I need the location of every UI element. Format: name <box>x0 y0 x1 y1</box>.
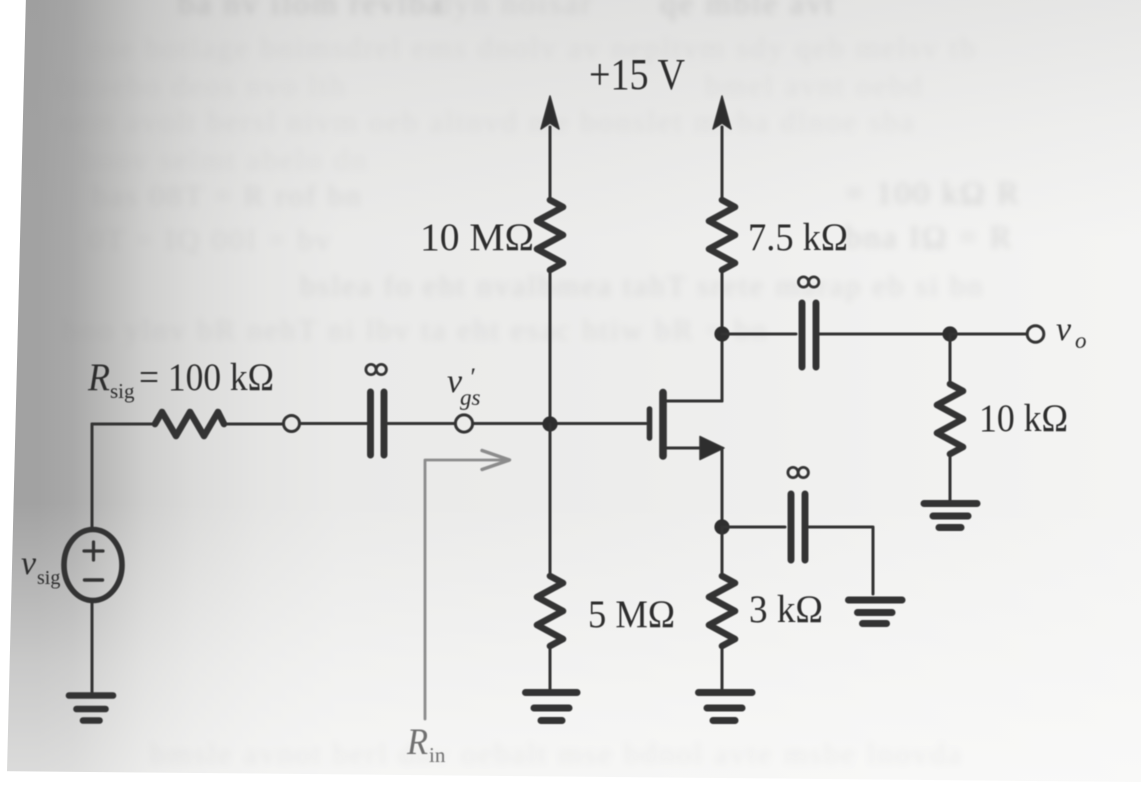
terminal node v'gs (open) <box>455 415 472 432</box>
wire gate node down to 5 MΩ <box>549 424 552 576</box>
wire 10 MΩ bottom to gate node <box>549 270 552 424</box>
ground of CS <box>849 600 903 624</box>
infinity label of CC2 <box>798 277 819 287</box>
wire 5 MΩ to ground <box>549 646 552 690</box>
wire CS to bypass ground <box>809 527 874 594</box>
terminal vo (open) <box>1027 326 1044 343</box>
svg-text:3 kΩ: 3 kΩ <box>749 588 823 631</box>
wire output node down to RL <box>949 334 952 384</box>
node at output (RL junction) <box>942 326 957 341</box>
wire source node to RS <box>721 527 724 576</box>
resistor RS 3 kΩ <box>709 576 735 646</box>
svg-text:sig: sig <box>37 567 60 589</box>
svg-text:gs: gs <box>460 385 481 410</box>
transistor Q1 source lead with arrowhead <box>666 437 724 460</box>
svg-text:= 100 kΩ: = 100 kΩ <box>139 356 274 399</box>
wire vsig vertical <box>91 424 94 530</box>
svg-text:o: o <box>1075 328 1087 353</box>
node S (source junction) <box>714 519 729 534</box>
wire terminal to CC1 <box>300 422 367 425</box>
infinity label of CC1 <box>366 364 387 374</box>
wire 7.5 kΩ bottom to drain node <box>721 270 724 334</box>
ground of 5 MΩ <box>526 693 578 721</box>
wire vsig bottom to ground <box>91 601 94 693</box>
svg-text:10 kΩ: 10 kΩ <box>979 397 1068 440</box>
ground of RL <box>924 504 977 528</box>
ground of RS <box>699 693 753 721</box>
supply +15 V left arrow <box>541 96 559 200</box>
wire Rsig to input terminal <box>224 423 283 426</box>
node D (drain junction) <box>714 326 729 341</box>
svg-text:sig: sig <box>110 379 135 403</box>
vsig minus sign <box>85 578 103 581</box>
resistor RD 7.5 kΩ <box>709 200 735 270</box>
wire CC1 to v'gs terminal <box>388 422 456 425</box>
wire CC2 to output node <box>820 333 951 336</box>
supply +15 V right arrow <box>713 96 731 200</box>
svg-text:v: v <box>1056 311 1072 348</box>
svg-text:in: in <box>429 743 446 767</box>
terminal node (open) after Rsig <box>284 416 300 432</box>
svg-text:5 MΩ: 5 MΩ <box>588 593 675 636</box>
transistor Q1 gate bar <box>647 409 653 438</box>
capacitor CC2 (infinite) output coupling <box>802 303 816 367</box>
resistor RG1 10 MΩ <box>537 200 563 270</box>
Rin measurement arrow (grey) <box>425 451 510 720</box>
capacitor CS (infinite) bypass <box>791 494 805 560</box>
wire v'gs terminal to gate <box>473 422 646 425</box>
transistor Q1 drain lead <box>666 400 722 403</box>
svg-text:10 MΩ: 10 MΩ <box>420 216 534 259</box>
wire drain node to CC2 <box>722 333 796 336</box>
wire RS to ground <box>721 646 724 690</box>
resistor Rsig <box>155 412 224 436</box>
svg-text:+15 V: +15 V <box>589 50 685 99</box>
wire output node to vo terminal <box>950 333 1027 336</box>
source vsig circle <box>64 530 122 601</box>
vsig plus sign <box>84 542 103 560</box>
ground of vsig <box>69 696 113 721</box>
svg-text:R: R <box>87 356 110 399</box>
svg-text:R: R <box>406 722 428 763</box>
wire source node to CS <box>722 526 785 529</box>
wire source down to source node <box>721 448 724 527</box>
resistor RL 10 kΩ <box>937 384 963 454</box>
svg-text:7.5 kΩ: 7.5 kΩ <box>748 216 848 259</box>
svg-text:v: v <box>21 545 37 582</box>
transistor Q1 channel bar <box>659 393 667 457</box>
resistor RG2 5 MΩ <box>537 576 563 646</box>
node G (gate junction) <box>542 416 557 431</box>
infinity label of CS <box>788 467 809 477</box>
capacitor CC1 (infinite) input coupling <box>371 392 385 455</box>
wire drain up to drain node <box>721 334 724 401</box>
wire vsig top to Rsig <box>92 423 155 426</box>
wire RL to ground <box>949 454 952 500</box>
